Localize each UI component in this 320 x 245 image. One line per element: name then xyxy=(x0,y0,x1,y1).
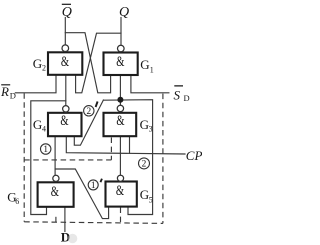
svg-text:1: 1 xyxy=(91,181,96,191)
svg-text:G: G xyxy=(140,117,149,132)
svg-text:&: & xyxy=(116,183,125,199)
svg-text:4: 4 xyxy=(42,124,46,133)
svg-text:CP: CP xyxy=(186,148,202,163)
svg-text:D: D xyxy=(10,91,16,101)
svg-text:G: G xyxy=(33,117,42,132)
svg-text:G: G xyxy=(140,187,149,202)
svg-text:Q: Q xyxy=(119,5,129,20)
svg-text:G: G xyxy=(33,56,42,71)
svg-text:1: 1 xyxy=(150,65,154,74)
svg-text:&: & xyxy=(61,54,70,70)
svg-text:5: 5 xyxy=(149,195,153,204)
svg-text:1: 1 xyxy=(43,145,48,155)
svg-text:2: 2 xyxy=(42,63,46,72)
svg-text:&: & xyxy=(116,113,125,129)
svg-text:&: & xyxy=(116,54,125,70)
svg-text:&: & xyxy=(51,184,60,200)
svg-text:2: 2 xyxy=(142,160,147,170)
svg-text:R: R xyxy=(0,84,9,99)
svg-text:&: & xyxy=(60,113,69,129)
svg-text:2: 2 xyxy=(86,107,91,117)
svg-text:S: S xyxy=(174,88,181,103)
svg-text:6: 6 xyxy=(15,197,19,206)
svg-text:Q: Q xyxy=(62,5,72,20)
svg-text:G: G xyxy=(140,57,149,72)
svg-text:3: 3 xyxy=(149,125,153,134)
svg-text:D: D xyxy=(184,93,190,103)
